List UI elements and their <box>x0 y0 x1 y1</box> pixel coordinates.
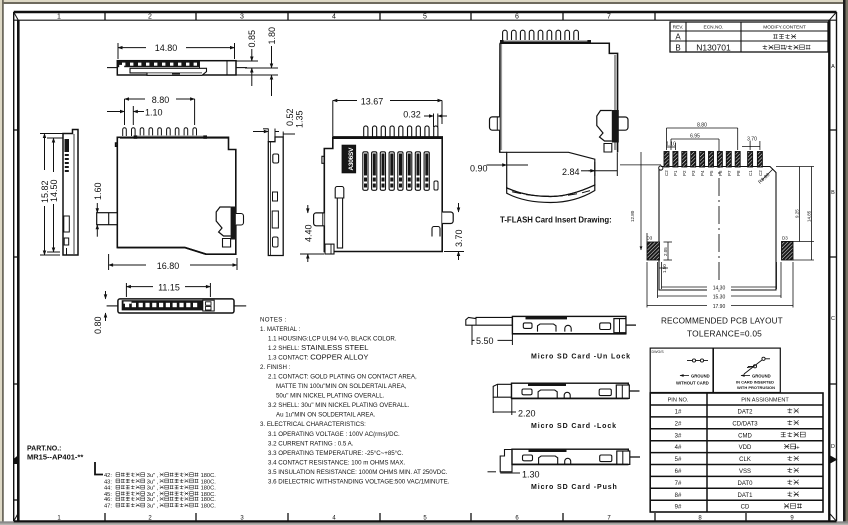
svg-text:12.80: 12.80 <box>630 210 635 222</box>
dim 2.20 <box>493 397 516 415</box>
svg-text:1.10: 1.10 <box>666 142 676 148</box>
centerline <box>718 150 720 293</box>
left pad dims <box>647 233 672 268</box>
right pad <box>782 242 794 261</box>
dim 2.84 <box>581 153 617 177</box>
dim 1.30 <box>488 472 521 473</box>
dim 8.80 <box>125 99 195 125</box>
dim 16.80 <box>109 254 237 270</box>
svg-text:C2: C2 <box>664 170 669 176</box>
svg-text:0.52: 0.52 <box>285 108 295 126</box>
svg-text:Au 1u"MIN ON SOLDERTAIL AREA.: Au 1u"MIN ON SOLDERTAIL AREA. <box>276 412 376 419</box>
dim 3.70 top right <box>742 141 760 150</box>
zone numbers <box>57 14 611 21</box>
svg-text:6.95: 6.95 <box>690 134 700 140</box>
dim 8.80 top <box>667 128 738 150</box>
right vertical dims <box>776 167 814 261</box>
svg-text:2#: 2# <box>675 421 682 427</box>
svg-text:14.50: 14.50 <box>49 179 59 202</box>
svg-text:2.84: 2.84 <box>562 167 580 177</box>
svg-text:WITHOUT CARD: WITHOUT CARD <box>676 381 709 386</box>
svg-text:180C.: 180C. <box>201 473 217 479</box>
svg-text:180C.: 180C. <box>201 486 217 492</box>
svg-text:P5: P5 <box>709 170 714 176</box>
svg-text:1.50: 1.50 <box>662 264 667 273</box>
svg-text:A: A <box>831 64 835 70</box>
svg-text:CLK: CLK <box>739 457 751 463</box>
inner rail <box>337 190 342 248</box>
body <box>512 316 626 333</box>
left pad <box>647 242 660 260</box>
svg-text:1. MATERIAL :: 1. MATERIAL : <box>260 326 301 333</box>
dim 0.85 <box>236 49 258 86</box>
svg-text:P3: P3 <box>691 170 696 176</box>
svg-text:2: 2 <box>148 14 152 21</box>
svg-text:180C.: 180C. <box>201 504 217 510</box>
svg-text:/+: /+ <box>794 446 800 452</box>
svg-text:CD: CD <box>741 505 750 511</box>
svg-text:Micro SD Card -Push: Micro SD Card -Push <box>531 484 618 491</box>
right tab <box>442 212 453 224</box>
svg-text:A306SV: A306SV <box>348 147 355 171</box>
svg-text:8.80: 8.80 <box>697 123 707 129</box>
svg-text:5#: 5# <box>675 457 682 463</box>
svg-text:3.6 DIELECTRIC WITHSTANDING VO: 3.6 DIELECTRIC WITHSTANDING VOLTAGE:500 … <box>268 479 450 486</box>
svg-text:0.85: 0.85 <box>247 30 257 48</box>
dim 5.50 <box>472 325 512 345</box>
dim 14.50 <box>47 138 63 252</box>
body outline <box>107 61 247 75</box>
dim 3.70 <box>444 203 464 260</box>
svg-text:3.70: 3.70 <box>747 137 757 143</box>
svg-text:IN CARD INSERTED: IN CARD INSERTED <box>736 380 774 385</box>
svg-text:44:: 44: <box>104 486 112 492</box>
dark pin strip <box>118 61 200 67</box>
svg-text:3u" ,: 3u" , <box>147 486 159 492</box>
svg-text:MATTE TIN 100u"MIN ON SOLDERTA: MATTE TIN 100u"MIN ON SOLDERTAIL AREA, <box>276 383 407 390</box>
svg-text:2.20: 2.20 <box>518 409 536 419</box>
svg-text:3.5 INSULATION RESISTANCE: 100: 3.5 INSULATION RESISTANCE: 1000M OHMS MI… <box>268 469 448 476</box>
svg-text:C2: C2 <box>758 170 763 176</box>
corner leader R <box>762 169 773 180</box>
body outline <box>324 137 442 252</box>
svg-text:14.30: 14.30 <box>713 285 726 291</box>
svg-text:13.67: 13.67 <box>361 96 384 106</box>
svg-text:180C.: 180C. <box>201 497 217 503</box>
svg-text:14.85: 14.85 <box>807 210 812 222</box>
body outline <box>500 43 618 152</box>
pins row <box>503 30 579 40</box>
dim 1.10 <box>667 143 676 150</box>
svg-text:DAT0: DAT0 <box>738 481 754 487</box>
svg-text:P4: P4 <box>700 170 705 176</box>
svg-text:RECOMMENDED PCB LAYOUT: RECOMMENDED PCB LAYOUT <box>661 317 783 326</box>
svg-text:VSS: VSS <box>739 469 751 475</box>
svg-text:CMD: CMD <box>738 433 752 439</box>
svg-text:7: 7 <box>607 14 611 21</box>
svg-text:4#: 4# <box>675 445 682 451</box>
svg-text:WITH PROTRUSION: WITH PROTRUSION <box>737 385 775 390</box>
body <box>512 383 629 398</box>
left tab <box>314 213 325 226</box>
svg-text:46:: 46: <box>104 497 112 503</box>
svg-text:3u" ,: 3u" , <box>147 479 159 485</box>
svg-text:0.32: 0.32 <box>403 110 421 120</box>
svg-text:REV.: REV. <box>673 25 684 31</box>
svg-text:6#: 6# <box>675 469 682 475</box>
dim 0.80 <box>105 291 107 321</box>
slanted solder plate <box>130 68 207 75</box>
svg-text:3.3 OPERATING TEMPERATURE: -25: 3.3 OPERATING TEMPERATURE: -25°C~+85°C. <box>268 450 404 457</box>
outline <box>659 167 776 291</box>
svg-text:0.80: 0.80 <box>93 316 103 334</box>
svg-text:7#: 7# <box>675 481 682 487</box>
svg-text:47:: 47: <box>104 504 112 510</box>
svg-text:C: C <box>831 316 835 322</box>
left ear <box>490 117 500 130</box>
small bottom-left detail <box>335 187 344 199</box>
svg-text:B: B <box>831 190 835 196</box>
svg-text:3.1 OPERATING VOLTAGE : 100V A: 3.1 OPERATING VOLTAGE : 100V AC(rms)/DC. <box>268 431 400 438</box>
dim 1.60 <box>96 203 98 237</box>
svg-text:Micro SD Card -Lock: Micro SD Card -Lock <box>531 423 617 430</box>
svg-text:2.05: 2.05 <box>663 247 668 256</box>
svg-text:3: 3 <box>240 14 244 21</box>
svg-text:9#: 9# <box>675 505 682 511</box>
dim 0.32 <box>424 114 447 128</box>
svg-text:3#: 3# <box>675 433 682 439</box>
dims 0.52 / 1.35 <box>253 129 295 142</box>
svg-text:1#: 1# <box>675 410 682 416</box>
pad numbers <box>664 170 763 176</box>
svg-text:3.2 SHELL: 30u" MIN NICKEL PLA: 3.2 SHELL: 30u" MIN NICKEL PLATING OVERA… <box>268 402 410 409</box>
svg-text:PIN NO.: PIN NO. <box>668 397 689 403</box>
svg-text:TOLERANCE=0.05: TOLERANCE=0.05 <box>687 329 762 339</box>
inner contact strip <box>122 300 203 310</box>
svg-text:8.80: 8.80 <box>152 95 170 105</box>
svg-text:1.35: 1.35 <box>295 110 305 128</box>
svg-text:/: / <box>785 45 787 52</box>
top pads <box>664 152 762 168</box>
dim 0.90 <box>487 164 529 166</box>
dim 1.10 <box>107 106 144 125</box>
svg-text:16.80: 16.80 <box>157 261 180 271</box>
svg-text:11.15: 11.15 <box>158 283 180 293</box>
svg-text:1: 1 <box>57 14 61 21</box>
dim 14.80 <box>118 43 235 59</box>
svg-text:D3: D3 <box>782 236 788 241</box>
svg-text:1.30: 1.30 <box>522 470 540 480</box>
svg-text:50u" MIN NICKEL PLATING OVERAL: 50u" MIN NICKEL PLATING OVERALL. <box>276 393 385 400</box>
dim 11.15 <box>126 283 210 297</box>
svg-text:C1: C1 <box>748 170 753 176</box>
latch detail right <box>231 207 236 240</box>
dim 13.67 <box>333 101 442 138</box>
svg-text:VDD: VDD <box>739 445 752 451</box>
dim 6.95 <box>671 139 719 150</box>
body <box>512 449 628 464</box>
svg-text:3u" ,: 3u" , <box>147 497 159 503</box>
svg-text:9.25: 9.25 <box>795 209 800 218</box>
svg-text:3.4 CONTACT RESISTANCE: 100 m: 3.4 CONTACT RESISTANCE: 100 m OHMS MAX. <box>268 460 405 467</box>
svg-text:A: A <box>675 33 681 42</box>
dim 15.82 <box>40 134 70 256</box>
svg-text:PART.NO.:: PART.NO.: <box>27 446 61 453</box>
svg-text:3. ELECTRICAL CHARACTERISTICS:: 3. ELECTRICAL CHARACTERISTICS: <box>260 421 366 428</box>
svg-text:CD/DAT3: CD/DAT3 <box>732 421 758 427</box>
svg-text:NOTES :: NOTES : <box>260 317 287 324</box>
svg-text:4: 4 <box>332 14 336 21</box>
contacts <box>363 152 430 191</box>
pins row <box>123 128 197 136</box>
svg-text:PIN ASSIGNMENT: PIN ASSIGNMENT <box>741 397 789 403</box>
svg-text:1.10: 1.10 <box>145 107 163 117</box>
svg-text:2.1 CONTACT: GOLD PLATING ON C: 2.1 CONTACT: GOLD PLATING ON CONTACT ARE… <box>268 374 417 381</box>
bottom feet <box>325 244 334 254</box>
svg-text:DWG/S: DWG/S <box>652 350 665 354</box>
card ejected <box>466 317 513 325</box>
svg-text:3u" ,: 3u" , <box>147 504 159 510</box>
svg-text:2. FINISH :: 2. FINISH : <box>260 364 291 371</box>
svg-text:D3: D3 <box>647 236 653 241</box>
svg-text:3.2 CURRENT RATING : 0.5 A.: 3.2 CURRENT RATING : 0.5 A. <box>268 441 354 448</box>
svg-text:MR15--AP401-**: MR15--AP401-** <box>27 453 83 462</box>
body outline <box>116 137 236 254</box>
svg-text:14.80: 14.80 <box>155 43 178 53</box>
left tab <box>97 213 118 225</box>
fold marks <box>829 455 837 464</box>
svg-text:3.70: 3.70 <box>454 229 464 247</box>
svg-text:P6: P6 <box>718 170 723 176</box>
card stub pushed <box>500 450 512 472</box>
svg-text:P8: P8 <box>736 170 741 176</box>
card stub <box>493 384 511 397</box>
svg-text:1.1 HOUSING:LCP UL94 V-0, BLAC: 1.1 HOUSING:LCP UL94 V-0, BLACK COLOR. <box>268 336 397 343</box>
svg-text:GROUND: GROUND <box>691 374 710 379</box>
svg-text:DAT1: DAT1 <box>738 493 754 499</box>
shell top strip <box>500 40 591 43</box>
svg-text:GROUND: GROUND <box>752 374 771 379</box>
svg-text:B: B <box>675 43 680 52</box>
svg-text:P2: P2 <box>682 170 687 176</box>
svg-text:1.80: 1.80 <box>267 27 277 45</box>
dim 4.40 <box>300 205 324 262</box>
latch detail <box>612 110 619 143</box>
svg-text:P1: P1 <box>673 170 678 176</box>
svg-text:1.3 CONTACT: COPPER ALLOY: 1.3 CONTACT: COPPER ALLOY <box>268 353 368 362</box>
svg-text:DAT2: DAT2 <box>738 410 754 416</box>
svg-text:4.40: 4.40 <box>304 224 314 242</box>
dim 1.80 <box>236 46 278 96</box>
svg-text:T-FLASH Card Insert Drawing: T-FLASH Card Insert Drawing: <box>500 216 612 225</box>
svg-text:Micro SD Card -Un Lock: Micro SD Card -Un Lock <box>531 354 631 361</box>
svg-text:MODIFY.CONTENT: MODIFY.CONTENT <box>763 25 806 31</box>
svg-text:15.30: 15.30 <box>713 294 726 300</box>
top pins row <box>364 126 438 139</box>
shell top strip <box>134 135 207 138</box>
svg-text:5: 5 <box>423 14 427 21</box>
box2 switch symbol <box>744 357 770 374</box>
barcode label <box>342 145 355 172</box>
svg-text:8#: 8# <box>675 493 682 499</box>
svg-text:5.50: 5.50 <box>476 336 494 346</box>
svg-text:42:: 42: <box>104 473 112 479</box>
svg-text:180C.: 180C. <box>201 479 217 485</box>
right ear <box>618 117 628 130</box>
svg-text:17.90: 17.90 <box>713 304 726 310</box>
svg-text:3u" ,: 3u" , <box>147 473 159 479</box>
bottom dims <box>647 262 793 308</box>
small slot right <box>434 181 438 190</box>
svg-text:N130701: N130701 <box>696 43 731 53</box>
box1 switch symbol <box>687 359 708 362</box>
body <box>118 299 234 313</box>
left tall dim <box>620 152 661 250</box>
svg-text:0.90: 0.90 <box>470 164 488 174</box>
svg-text:6: 6 <box>515 14 519 21</box>
svg-text:1.2 SHELL: STAINLESS STEEL: 1.2 SHELL: STAINLESS STEEL <box>268 343 369 352</box>
svg-text:D: D <box>831 444 835 450</box>
svg-text:43:: 43: <box>104 479 112 485</box>
svg-text:ECN.NO.: ECN.NO. <box>704 25 724 31</box>
body <box>63 130 78 256</box>
svg-text:P7: P7 <box>727 170 732 176</box>
svg-text:1.60: 1.60 <box>93 182 103 200</box>
